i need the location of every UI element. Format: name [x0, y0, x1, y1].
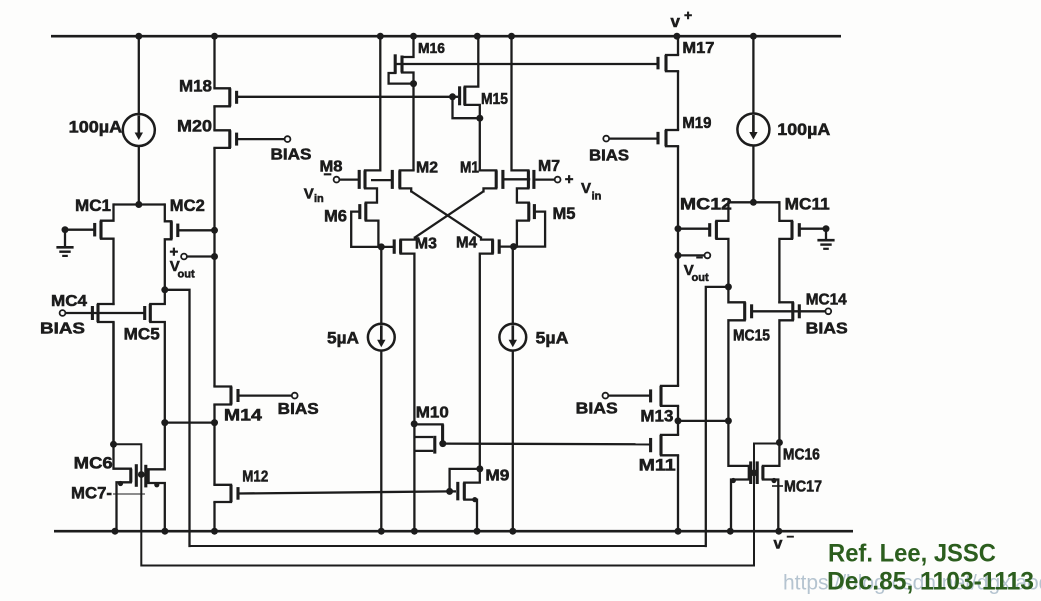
wire 5uA-right top — [512, 247, 514, 324]
wire MC4-MC5 gate — [92, 312, 144, 314]
node M4 label — [456, 235, 477, 252]
node M19 BIAS terminal — [603, 136, 609, 142]
junction MC11 gate-gnd — [823, 225, 830, 232]
wire 100uA-right to tail — [752, 145, 754, 202]
svg-text:+: + — [684, 7, 692, 23]
wire bus M13-M11 — [677, 406, 679, 435]
svg-text:Dec.85, 1103-1113: Dec.85, 1103-1113 — [827, 568, 1034, 596]
junction M15 gate — [449, 93, 456, 100]
transistor M15 — [453, 36, 480, 118]
transistor MC15 — [728, 287, 751, 421]
current source 5uA left — [327, 324, 395, 351]
node V- label — [774, 529, 795, 553]
wire gnd stub left — [64, 230, 66, 248]
node Vin- label — [304, 166, 332, 205]
node MC4 label — [51, 293, 87, 310]
junction MC12-MC15 Vout node — [725, 283, 732, 290]
transistor MC6 — [114, 444, 137, 531]
junction top rail x=753.4 — [750, 33, 757, 40]
svg-text:BIAS: BIAS — [278, 401, 319, 418]
junction M10 source — [439, 440, 446, 447]
junction bus 421 right — [675, 417, 682, 424]
junction top rail x=511.5 — [508, 33, 515, 40]
node MC2 label — [170, 196, 205, 215]
node Vout- terminal — [678, 253, 710, 259]
wire M8 drain — [365, 36, 380, 170]
transistor MC1 — [66, 205, 114, 305]
wire 100uA-left drain — [138, 36, 140, 114]
transistor M12 — [215, 485, 239, 502]
svg-text:M5: M5 — [553, 204, 576, 223]
node M6 label — [324, 207, 347, 226]
svg-text:M9: M9 — [485, 468, 509, 485]
junction MC7 source bend — [154, 482, 159, 487]
wire tail node MC1-MC2 — [114, 203, 165, 205]
current source 100uA right — [737, 114, 830, 146]
node MC4 BIAS terminal — [60, 310, 93, 316]
svg-text:in: in — [314, 193, 324, 205]
wire tail node MC12-MC11 — [728, 201, 779, 203]
junction 422 left — [161, 419, 168, 426]
transistor MC12 — [678, 202, 728, 287]
svg-text:M2: M2 — [416, 160, 438, 177]
node M8 label — [320, 159, 343, 176]
node reference line1 — [828, 540, 996, 568]
wire V+ top rail — [51, 35, 841, 38]
junction top rail x=413.5 — [410, 33, 417, 40]
wire MC4 down to MC6 — [112, 322, 114, 444]
junction bottom rail x=414.4 — [411, 528, 418, 535]
current source 100uA left — [69, 114, 155, 146]
svg-text:M13: M13 — [640, 407, 673, 426]
junction MC1 gate-gnd — [62, 226, 69, 233]
wire M10 bus down — [413, 424, 415, 531]
svg-text:MC2: MC2 — [170, 196, 205, 215]
transistor M3 — [394, 238, 415, 424]
wire bus M11-rail — [677, 455, 679, 531]
svg-text:V: V — [581, 180, 591, 197]
wire M18 gate line — [237, 96, 453, 98]
node MC14 BIAS terminal — [825, 308, 831, 314]
wire M10-M11 gate line — [443, 442, 651, 445]
ground left — [56, 247, 73, 256]
transistor M1 — [480, 170, 530, 191]
junction M10 drain — [411, 420, 418, 427]
transistor M10 — [414, 424, 442, 453]
transistor M18 — [215, 88, 237, 106]
transistor M11 — [651, 435, 678, 455]
node Vin- terminal — [334, 177, 358, 183]
svg-text:M3: M3 — [415, 236, 437, 253]
junction bottom rail x=730.3 — [727, 528, 734, 535]
wire cross diagonal M2-M4 — [411, 191, 481, 237]
junction Vout- bus — [675, 252, 682, 259]
junction MC2-MC5 Vout node — [161, 286, 168, 293]
node M2 label — [416, 160, 438, 177]
wire gnd stub right — [825, 229, 827, 240]
wire bus M17-M19 — [677, 71, 679, 130]
node BIAS label M13 — [576, 401, 618, 418]
junction MC2 gate bus — [211, 227, 218, 234]
svg-text:v: v — [774, 536, 783, 553]
svg-text:BIAS: BIAS — [40, 321, 85, 338]
transistor M2 — [371, 170, 414, 191]
wire MC17 label leader — [772, 485, 783, 487]
node BIAS label M19 — [589, 148, 629, 165]
junction bottom rail x=214.5 — [211, 528, 218, 535]
junction tail right — [750, 199, 757, 206]
junction MC16 gate tap — [776, 439, 783, 446]
junction node A — [378, 243, 385, 250]
wire MC7 label leader — [113, 493, 145, 495]
svg-text:100µA: 100µA — [69, 118, 123, 137]
wire 100uA-left to tail — [138, 146, 140, 205]
junction top rail x=214.5 — [211, 33, 218, 40]
svg-text:M20: M20 — [177, 117, 212, 136]
junction MC6 source bend — [118, 481, 123, 486]
node MC14 label — [806, 292, 847, 309]
svg-text:Ref. Lee, JSSC: Ref. Lee, JSSC — [828, 540, 996, 568]
svg-text:M18: M18 — [179, 77, 212, 96]
svg-text:MC7-: MC7- — [71, 484, 112, 503]
node M11 label — [639, 456, 676, 475]
wire node A — [351, 246, 394, 248]
svg-text:−: − — [324, 166, 332, 182]
junction MC6-MC7 gates — [138, 471, 145, 478]
svg-text:M4: M4 — [456, 235, 477, 252]
svg-text:M6: M6 — [324, 207, 347, 226]
wire bus M19-M13 — [677, 146, 679, 386]
svg-text:V: V — [304, 186, 314, 203]
node reference line2 — [827, 568, 1034, 596]
node BIAS label MC14 — [806, 321, 848, 338]
junction top rail x=380.3 — [377, 33, 384, 40]
junction MC12 gate bus — [675, 225, 682, 232]
node M18 label — [179, 77, 212, 96]
current source 5uA right — [499, 324, 568, 351]
svg-text:MC5: MC5 — [124, 325, 160, 344]
transistor M14 — [215, 387, 292, 405]
node M1 label — [460, 160, 479, 177]
node V+ label — [671, 7, 693, 31]
svg-text:5µA: 5µA — [327, 329, 359, 348]
wire 5uA-left top — [380, 247, 382, 324]
wire gates line2 — [114, 444, 780, 566]
svg-text:BIAS: BIAS — [589, 148, 629, 165]
node M7 label — [538, 158, 560, 175]
junction top rail x=477.3 — [474, 33, 481, 40]
svg-text:in: in — [592, 191, 602, 203]
wire bus M12-rail — [213, 502, 215, 531]
svg-text:BIAS: BIAS — [806, 321, 848, 338]
svg-text:out: out — [178, 269, 195, 281]
junction bottom rail x=678 — [675, 528, 682, 535]
node M14 BIAS terminal — [292, 393, 298, 399]
wire M12 gate line — [238, 491, 450, 493]
transistor MC11 — [779, 202, 826, 302]
junction top rail x=676.9 — [673, 33, 680, 40]
transistor M4 — [480, 238, 499, 469]
wire M15 to M1 — [479, 118, 481, 170]
node BIAS label MC4 — [40, 321, 85, 338]
node watermark — [783, 572, 1041, 595]
junction MC6 gate tap — [110, 441, 117, 448]
svg-text:MC11: MC11 — [785, 195, 830, 214]
wire MC15-MC14 gate — [752, 310, 826, 312]
svg-text:−: − — [787, 529, 795, 544]
node M17 label — [682, 40, 714, 57]
svg-text:+: + — [565, 171, 574, 188]
svg-text:MC17: MC17 — [784, 479, 822, 496]
node MC7 label — [71, 484, 112, 503]
junction top rail x=138.8 — [135, 33, 142, 40]
wire bus M14-M12 — [213, 405, 215, 485]
wire V- bottom rail — [54, 530, 853, 533]
node M13 BIAS terminal — [603, 393, 609, 399]
junction bottom rail x=512.8 — [509, 528, 516, 535]
node M20 BIAS terminal — [285, 136, 291, 142]
wire M16 to M2 — [412, 84, 414, 171]
transistor M20 — [215, 130, 285, 148]
junction 422 bus — [211, 419, 218, 426]
transistor M13 — [608, 386, 678, 406]
svg-text:M1: M1 — [460, 160, 479, 177]
junction M9 gate — [446, 488, 453, 495]
wire M7 drain — [512, 36, 529, 170]
wire cross diagonal M1-M3 — [415, 191, 484, 237]
node M19 label — [682, 115, 711, 132]
svg-text:M12: M12 — [242, 469, 268, 486]
svg-text:out: out — [692, 272, 709, 284]
junction MC16 source bend — [771, 478, 776, 483]
transistor M7 — [517, 170, 534, 203]
transistor MC4 — [92, 304, 113, 444]
node M14 label — [224, 406, 263, 425]
ground right — [817, 240, 834, 249]
wire bus M18-M20 — [213, 106, 215, 130]
svg-text:v: v — [671, 12, 681, 31]
junction M9 drain — [476, 465, 483, 472]
junction M9 source bend — [472, 497, 477, 502]
transistor M17 — [658, 55, 678, 71]
node M16 label — [418, 40, 445, 57]
svg-text:M14: M14 — [224, 406, 263, 425]
node Vin+ terminal — [536, 177, 561, 183]
node Vin+ label — [565, 171, 602, 203]
junction M15 source — [476, 115, 483, 122]
wire M9 gate loop — [450, 469, 480, 492]
transistor MC5 — [145, 290, 165, 423]
svg-text:MC6: MC6 — [74, 454, 113, 473]
junction MC16-MC17 gates — [751, 470, 758, 477]
transistor MC17 — [728, 421, 750, 531]
node MC1 label — [75, 196, 111, 215]
node M9 label — [485, 468, 509, 485]
transistor M19 — [609, 130, 678, 146]
junction bottom rail x=477 — [474, 528, 481, 535]
junction bottom rail x=778.8 — [775, 528, 782, 535]
node MC17 label — [784, 479, 822, 496]
svg-text:M19: M19 — [682, 115, 711, 132]
svg-text:BIAS: BIAS — [271, 147, 312, 164]
node Vout- label — [684, 251, 709, 285]
wire M16-M17 gate line — [396, 63, 657, 65]
wire bus M20-M14 — [213, 148, 215, 387]
junction M16 drain-gate — [410, 80, 417, 87]
wire comp line1 — [190, 545, 706, 547]
wire bus right top — [677, 36, 679, 55]
svg-text:5µA: 5µA — [536, 329, 569, 348]
svg-text:M7: M7 — [538, 158, 560, 175]
node M12 label — [242, 469, 268, 486]
wire Vout+ comp branch — [165, 290, 190, 546]
node MC16 label — [783, 447, 820, 464]
node M20 label — [177, 117, 212, 136]
node Vout+ label — [170, 244, 195, 281]
transistor M5 — [514, 203, 546, 247]
node MC15 label — [733, 328, 770, 345]
node MC11 label — [785, 195, 830, 214]
transistor MC2 — [165, 205, 215, 290]
transistor MC14 — [779, 302, 799, 442]
junction node B — [510, 243, 517, 250]
node M15 label — [481, 91, 508, 108]
junction bottom rail x=164.9 — [161, 528, 168, 535]
node M5 label — [553, 204, 576, 223]
transistor M6 — [351, 203, 378, 247]
transistor MC16 — [757, 443, 779, 532]
node M3 label — [415, 236, 437, 253]
node BIAS label M20 — [271, 147, 312, 164]
svg-text:BIAS: BIAS — [576, 401, 618, 418]
wire MC5 to bus — [165, 421, 215, 423]
node M13 label — [640, 407, 673, 426]
junction tail left — [135, 201, 142, 208]
node BIAS label M14 — [278, 401, 319, 418]
junction Vout+ bus — [211, 253, 218, 260]
node MC6 label — [74, 454, 113, 473]
wire 421 right — [678, 420, 728, 422]
junction MC17 source bend — [731, 478, 736, 483]
wire 5uA-left bottom — [380, 351, 382, 532]
wire 5uA-right bottom — [512, 351, 514, 532]
node MC5 label — [124, 325, 160, 344]
node Vout+ terminal — [181, 254, 214, 260]
node M10 label — [416, 405, 449, 422]
wire node B — [499, 245, 517, 247]
svg-text:M11: M11 — [639, 456, 676, 475]
svg-text:M15: M15 — [481, 91, 508, 108]
transistor M9 — [450, 469, 480, 531]
transistor MC7 — [146, 423, 165, 532]
transistor M8 — [359, 170, 377, 203]
svg-text:M17: M17 — [682, 40, 714, 57]
junction 421 MC15 — [725, 417, 732, 424]
svg-text:MC15: MC15 — [733, 328, 770, 345]
svg-text:MC4: MC4 — [51, 293, 87, 310]
svg-text:M10: M10 — [416, 405, 449, 422]
junction bottom rail x=115 — [112, 528, 119, 535]
svg-text:MC14: MC14 — [806, 292, 847, 309]
svg-text:100µA: 100µA — [777, 120, 830, 139]
transistor M16 — [389, 36, 414, 83]
svg-text:M16: M16 — [418, 40, 445, 57]
junction bottom rail x=381.3 — [378, 528, 385, 535]
wire 100uA-right drain — [752, 36, 754, 114]
svg-text:MC16: MC16 — [783, 447, 820, 464]
svg-text:−: − — [696, 251, 703, 265]
svg-text:MC12: MC12 — [680, 195, 732, 214]
svg-text:MC1: MC1 — [75, 196, 111, 215]
wire Vout- comp branch — [706, 287, 729, 546]
node MC12 label — [680, 195, 732, 214]
wire bus left top — [213, 36, 215, 88]
